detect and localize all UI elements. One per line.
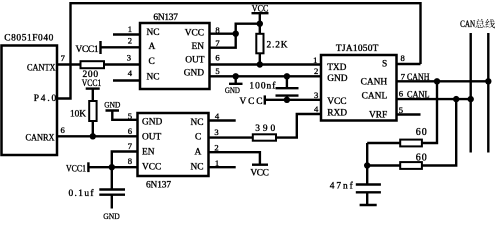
ground symbol (mid) bbox=[225, 76, 243, 95]
svg-text:6N137: 6N137 bbox=[153, 13, 178, 23]
wire R200 to U2 pin 3 bbox=[104, 63, 140, 65]
svg-text:CANTX: CANTX bbox=[27, 63, 56, 73]
wire CANH down to R60a bbox=[422, 81, 437, 143]
svg-text:5: 5 bbox=[215, 66, 219, 76]
pin 1 stub NC (bottom chip) bbox=[209, 166, 236, 168]
svg-text:6N137: 6N137 bbox=[146, 180, 171, 190]
wire U3 C to R390 bbox=[209, 136, 253, 138]
svg-text:8: 8 bbox=[401, 53, 405, 63]
resistor R5 10K bbox=[70, 89, 97, 137]
svg-text:2: 2 bbox=[128, 36, 132, 46]
transceiver U4 TJA1050T bbox=[313, 44, 406, 121]
svg-text:60: 60 bbox=[416, 153, 427, 164]
svg-text:1: 1 bbox=[313, 55, 317, 65]
svg-text:3: 3 bbox=[127, 53, 131, 63]
svg-text:C: C bbox=[149, 57, 155, 67]
wire R390 to U4 RXD bbox=[276, 114, 321, 138]
svg-text:CANRX: CANRX bbox=[26, 133, 55, 143]
wire R60b to node bbox=[367, 164, 400, 166]
wire CANL bbox=[397, 98, 471, 100]
pin 4 stub NC bbox=[113, 79, 140, 81]
pin 4 stub NC (bottom chip) bbox=[209, 119, 236, 121]
terminal VCC1 (bottom) bbox=[66, 162, 88, 174]
ground symbol (U3 pin 5) bbox=[104, 100, 137, 120]
svg-text:GND: GND bbox=[184, 69, 205, 79]
wire U2 pin 8 to VCC junction bbox=[210, 33, 236, 35]
power terminal VCC (top) bbox=[252, 4, 269, 23]
bus line 1 bbox=[470, 33, 472, 153]
capacitor C3 47nf bbox=[330, 181, 381, 204]
resistor R2 2.2K bbox=[256, 24, 287, 65]
svg-text:VCC: VCC bbox=[250, 169, 269, 179]
svg-text:2.2K: 2.2K bbox=[267, 41, 288, 51]
pin 1 stub NC bbox=[113, 33, 140, 35]
pin 5 stub VRF bbox=[397, 113, 421, 115]
svg-text:VCC1: VCC1 bbox=[66, 164, 86, 174]
wire U2 pin 7 to VCC junction bbox=[210, 24, 260, 48]
wire U2 OUT to U4 TXD bbox=[210, 63, 322, 65]
svg-text:10K: 10K bbox=[70, 109, 86, 119]
wire termination node bbox=[366, 143, 368, 184]
svg-text:EN: EN bbox=[192, 42, 205, 52]
svg-text:CANL: CANL bbox=[407, 91, 430, 101]
wire VCC to U4 pin 3 bbox=[265, 99, 321, 101]
power terminal VCC (inverted) bbox=[250, 165, 269, 179]
svg-text:390: 390 bbox=[255, 124, 275, 134]
junction dot 2.2K bottom bbox=[257, 61, 263, 67]
junction dot CANH/R60a bbox=[434, 78, 440, 84]
svg-text:0.1uf: 0.1uf bbox=[69, 188, 95, 199]
wire VCC1 to U3 pin 8 bbox=[88, 166, 137, 168]
svg-text:1: 1 bbox=[128, 24, 132, 34]
wire U3 A to VCC terminal bbox=[209, 152, 260, 164]
svg-text:7: 7 bbox=[61, 53, 66, 63]
power terminal VCC (mid) bbox=[240, 95, 265, 106]
svg-text:3: 3 bbox=[314, 90, 318, 100]
terminal VCC1 (10K pullup) bbox=[82, 79, 102, 89]
wire CANRX to U3 OUT bbox=[57, 135, 138, 137]
svg-text:6: 6 bbox=[128, 126, 133, 136]
wire CANL down to R60b bbox=[422, 99, 456, 165]
svg-text:VCC: VCC bbox=[142, 163, 161, 173]
wire CANH bbox=[397, 80, 489, 82]
svg-text:P4.0: P4.0 bbox=[34, 94, 57, 104]
svg-text:6: 6 bbox=[399, 89, 404, 99]
svg-text:CANH: CANH bbox=[361, 77, 388, 87]
svg-text:VCC: VCC bbox=[185, 29, 204, 39]
svg-text:C: C bbox=[195, 132, 201, 142]
bus line 2 bbox=[487, 33, 489, 153]
svg-text:100nf: 100nf bbox=[249, 81, 276, 92]
wire U3 EN to VCC1 junction bbox=[112, 152, 138, 168]
resistor R6 390 bbox=[253, 124, 276, 141]
svg-text:CANH: CANH bbox=[407, 73, 430, 83]
svg-text:GND: GND bbox=[327, 74, 348, 84]
junction dot pin 8 bbox=[233, 31, 239, 37]
wire R60a to node bbox=[367, 142, 400, 144]
svg-text:GND: GND bbox=[103, 211, 120, 221]
svg-text:EN: EN bbox=[142, 148, 155, 158]
svg-text:4: 4 bbox=[314, 104, 319, 114]
svg-text:RXD: RXD bbox=[327, 109, 347, 119]
wire P4.0 to top rail to S-pin corner bbox=[57, 3, 421, 98]
wire CANTX to R200 bbox=[57, 63, 81, 65]
svg-text:NC: NC bbox=[147, 72, 160, 82]
optocoupler U2 6N137 (top) bbox=[127, 13, 221, 89]
wire U2 GND to U4 GND bbox=[210, 75, 322, 77]
svg-text:7: 7 bbox=[401, 72, 406, 82]
junction dot 100nf bottom bbox=[284, 97, 290, 103]
svg-text:VCC: VCC bbox=[240, 97, 263, 107]
wire VCC1 to U2 pin 2 bbox=[101, 46, 141, 48]
svg-text:NC: NC bbox=[190, 118, 203, 128]
svg-text:GND: GND bbox=[142, 118, 163, 128]
junction dot CANL/bus1 bbox=[468, 96, 474, 102]
microcontroller U1 C8051F040 bbox=[2, 34, 66, 156]
svg-text:A: A bbox=[149, 42, 156, 52]
resistor R3 60 bbox=[400, 127, 427, 147]
resistor R4 60 bbox=[400, 153, 427, 169]
svg-text:VCC1: VCC1 bbox=[76, 45, 99, 55]
junction dot 10K bottom bbox=[90, 133, 96, 139]
junction dot GND drop bbox=[233, 73, 239, 79]
svg-text:8: 8 bbox=[128, 156, 132, 166]
svg-text:4: 4 bbox=[128, 68, 133, 78]
junction dot 100nf top bbox=[284, 73, 290, 79]
resistor R1 200 bbox=[81, 61, 105, 80]
svg-text:VRF: VRF bbox=[369, 110, 387, 120]
junction dot VCC1 bbox=[109, 164, 115, 170]
svg-text:A: A bbox=[195, 148, 202, 158]
junction dot CANL/R60b bbox=[453, 96, 459, 102]
svg-text:7: 7 bbox=[128, 141, 133, 151]
label CAN bus bbox=[460, 19, 495, 30]
svg-text:5: 5 bbox=[128, 111, 132, 121]
wire S pin to rail corner bbox=[397, 63, 421, 65]
svg-text:GND: GND bbox=[104, 100, 120, 110]
svg-text:CAN: CAN bbox=[460, 20, 475, 30]
svg-text:2: 2 bbox=[314, 66, 318, 76]
svg-text:OUT: OUT bbox=[142, 133, 162, 143]
svg-text:6: 6 bbox=[61, 125, 66, 135]
capacitor C2 0.1uf bbox=[69, 167, 126, 208]
junction dot CANH/bus2 bbox=[485, 78, 491, 84]
svg-text:6: 6 bbox=[215, 52, 220, 62]
svg-text:NC: NC bbox=[190, 163, 203, 173]
svg-text:GND: GND bbox=[225, 85, 240, 95]
svg-text:CANL: CANL bbox=[362, 92, 388, 102]
svg-text:VCC: VCC bbox=[327, 97, 346, 107]
svg-text:TXD: TXD bbox=[327, 63, 346, 73]
svg-text:TJA1050T: TJA1050T bbox=[336, 44, 379, 54]
svg-text:C8051F040: C8051F040 bbox=[4, 34, 53, 44]
svg-text:S: S bbox=[382, 60, 387, 70]
junction dot termination node bbox=[364, 162, 370, 168]
svg-text:OUT: OUT bbox=[185, 55, 205, 65]
junction dot VCC arm bbox=[257, 21, 263, 27]
capacitor C1 100nf bbox=[249, 76, 298, 100]
ground bar C3 bbox=[360, 204, 377, 206]
svg-text:NC: NC bbox=[147, 28, 160, 38]
terminal VCC1 at U2 pin 2 bbox=[76, 41, 101, 55]
optocoupler U3 6N137 (bottom) bbox=[128, 111, 220, 190]
svg-text:3: 3 bbox=[214, 127, 218, 137]
svg-text:60: 60 bbox=[416, 127, 427, 138]
svg-text:2: 2 bbox=[214, 142, 218, 152]
